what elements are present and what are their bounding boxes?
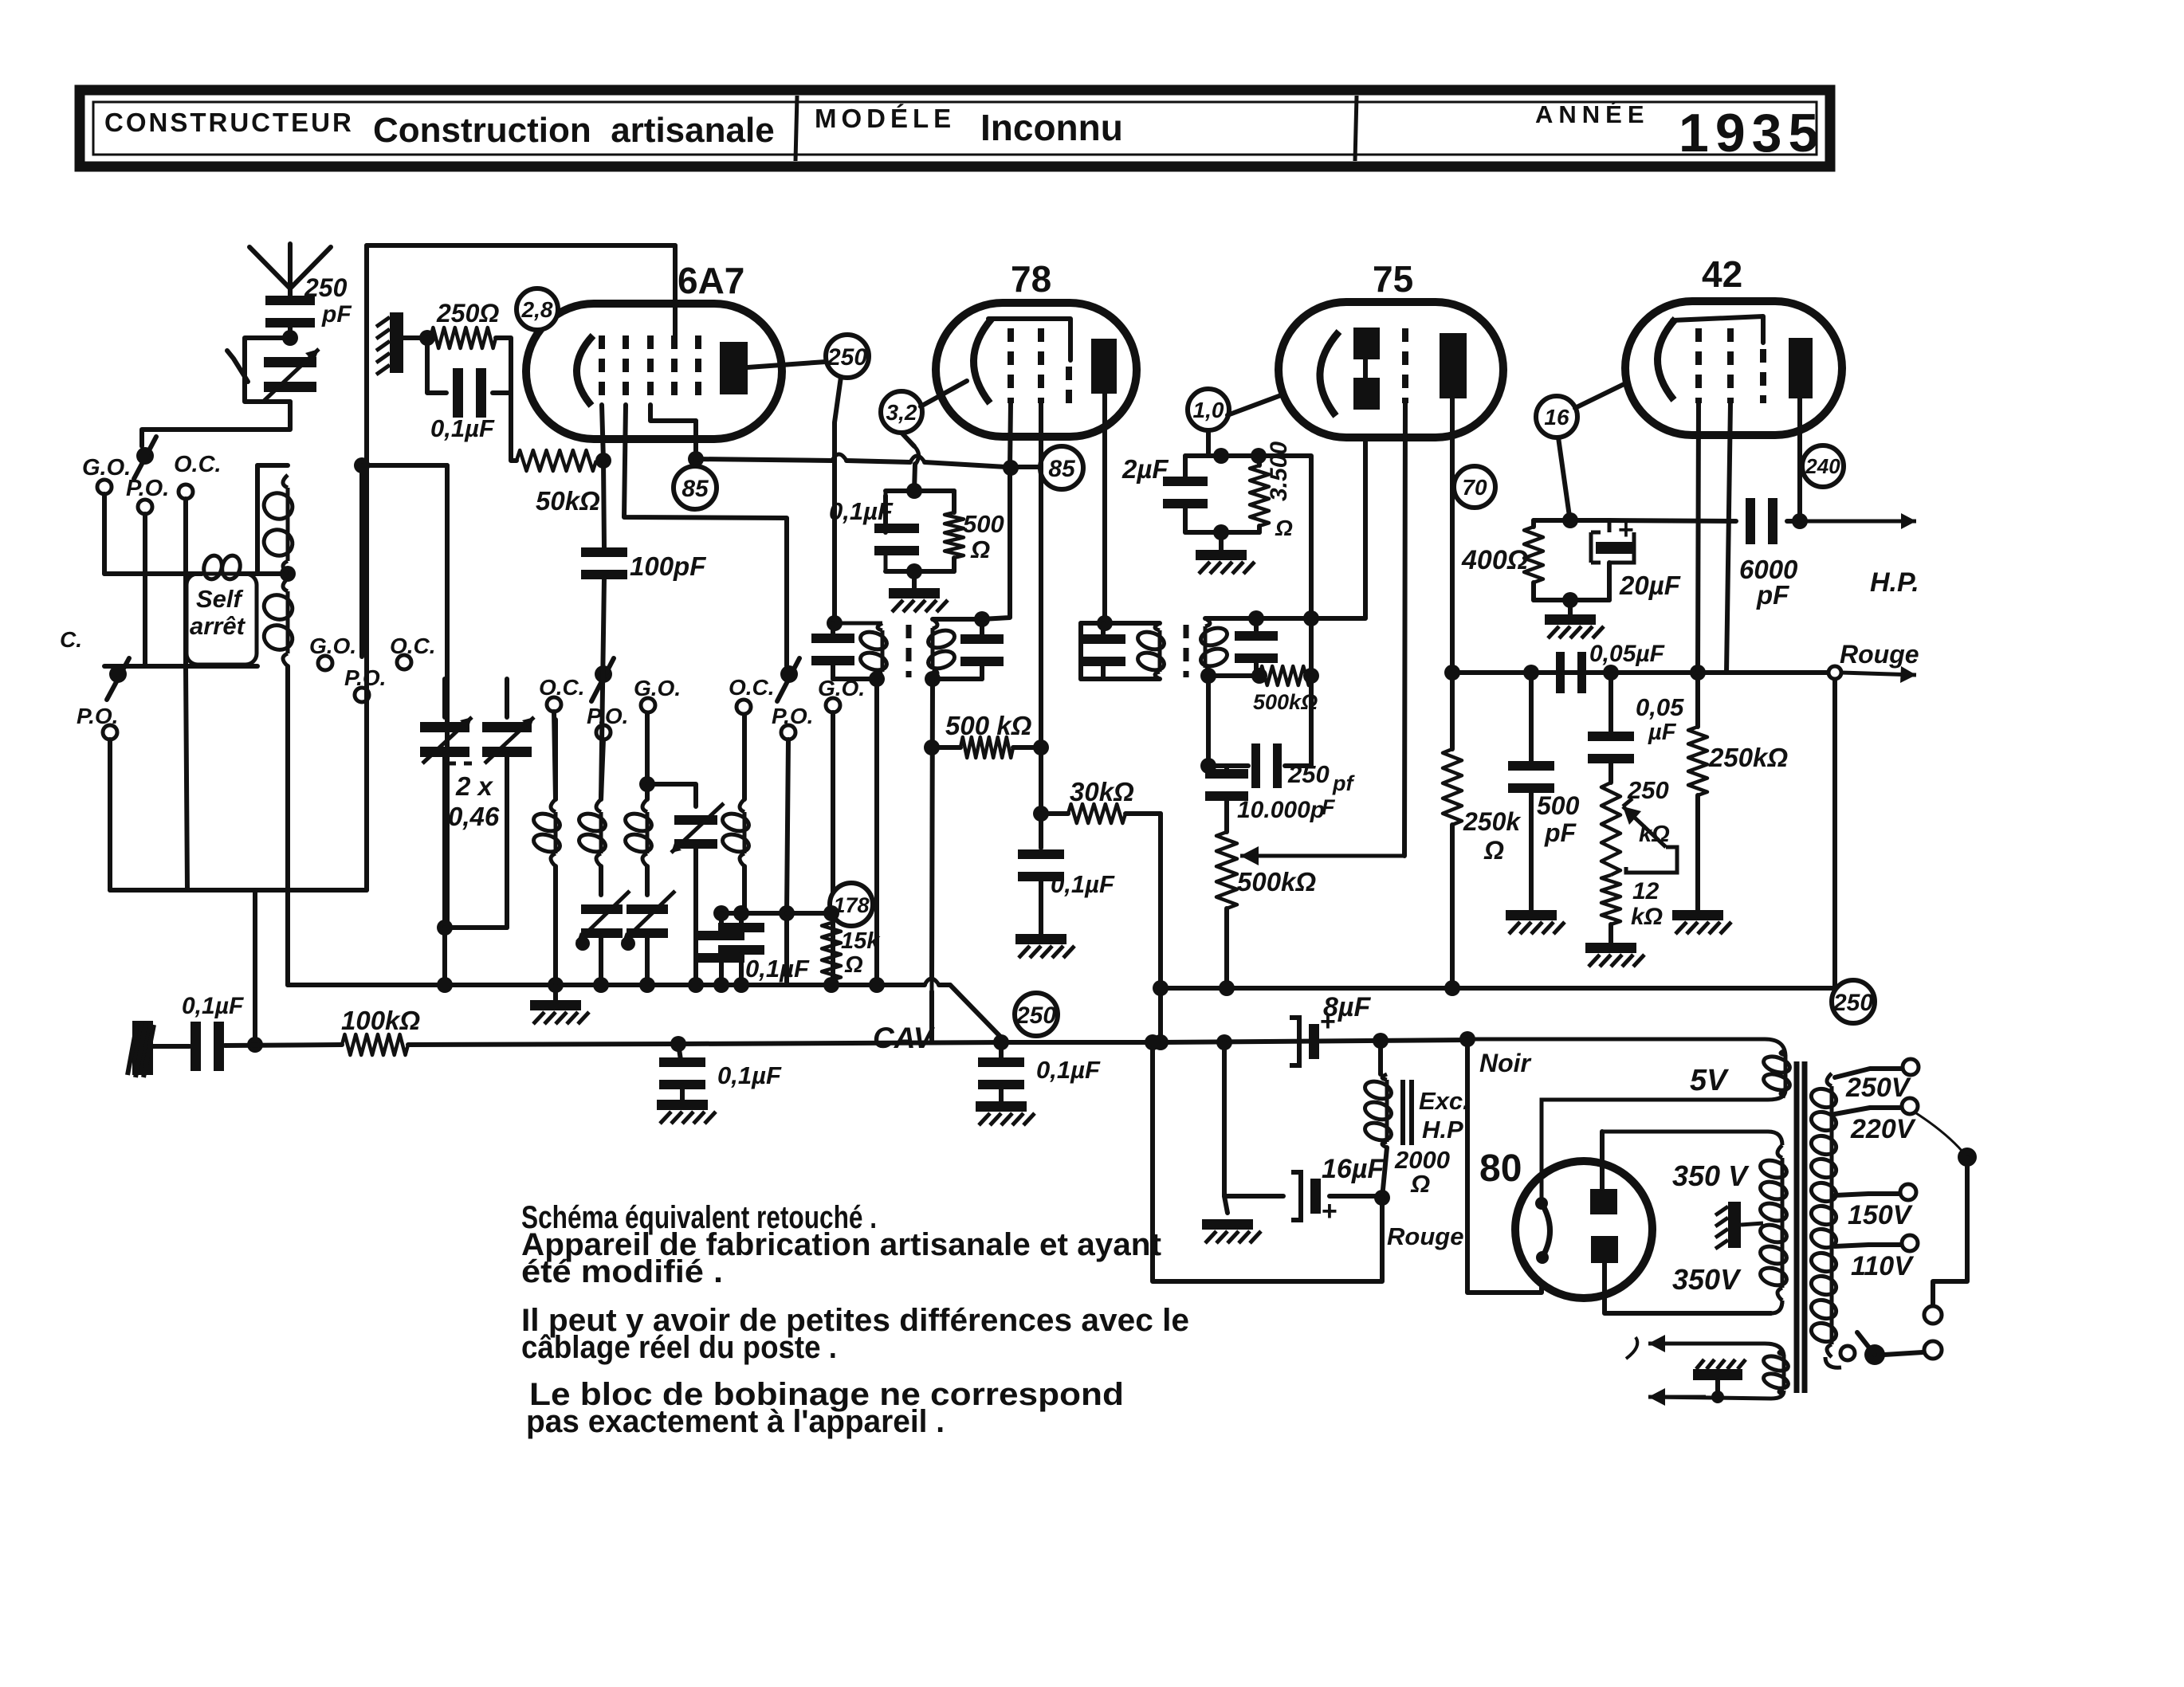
wire 78 grid lead — [1039, 403, 1043, 814]
terminal (178) — [830, 883, 873, 926]
tube 80 anode 1 — [1590, 1189, 1617, 1214]
wire bus corner to rouge line — [1832, 678, 1837, 988]
wire 100pF down to coil2 — [601, 578, 604, 799]
svg-text:500 kΩ: 500 kΩ — [945, 711, 1032, 740]
wire trimmer C to bus — [599, 936, 603, 985]
ground 12k — [1609, 924, 1613, 943]
wire P.O. S3 down — [601, 740, 603, 799]
wire mains selector — [1914, 1112, 1962, 1151]
title divider 2 — [1355, 96, 1357, 161]
box 400/20uF top — [1534, 518, 1609, 523]
node bus pot — [1219, 980, 1235, 996]
wire osc coil3 down — [645, 866, 650, 895]
capacitor 0,1uF osc — [739, 913, 744, 924]
title block frame — [80, 90, 1830, 167]
wire tall loop left — [255, 465, 260, 574]
resistor 250k to bus — [1443, 749, 1462, 825]
wire G.O. S1 down — [102, 494, 107, 574]
ground 500pF — [1529, 791, 1534, 910]
svg-text:250: 250 — [1287, 760, 1330, 788]
svg-text:1,0: 1,0 — [1193, 398, 1224, 422]
inductor IF2 secondary — [1199, 618, 1230, 676]
node bias left — [419, 330, 435, 346]
tube 75 diode plate upper — [1353, 328, 1380, 359]
tap 220V — [1835, 1108, 1900, 1114]
tube 78 grid 2 — [1038, 328, 1044, 403]
wire bias cap branch — [427, 338, 446, 393]
wire exc bottom loop — [1153, 1042, 1382, 1281]
tube 78 top link — [988, 319, 1070, 360]
terminal (70) — [1454, 466, 1495, 508]
svg-text:CAV: CAV — [873, 1022, 936, 1054]
wire P.O. S4 down — [787, 740, 788, 913]
wire diode out — [1206, 676, 1211, 766]
svg-text:0,46: 0,46 — [448, 802, 500, 831]
node bus 250k — [1444, 980, 1460, 996]
node bus 15k — [823, 977, 839, 993]
svg-text:Ω: Ω — [1483, 836, 1504, 865]
title divider 1 — [795, 96, 797, 161]
wire bias right node — [496, 338, 517, 461]
resistor 100k — [342, 1034, 408, 1055]
inductor IF1 primary — [858, 623, 890, 679]
wire osc coil3 up — [645, 712, 650, 799]
wire 75 diode jog — [1311, 437, 1365, 618]
wire osc coil1 down to bus — [553, 866, 558, 985]
inductor antenna coil lower — [261, 579, 296, 666]
svg-text:O.C.: O.C. — [729, 675, 775, 700]
node 0,05 top — [1603, 665, 1619, 681]
350V winding top — [1602, 1132, 1782, 1145]
tube 6A7 grid 3 — [647, 335, 654, 405]
wire 460 to 1117 — [364, 465, 369, 890]
inductor osc coil 2 — [577, 799, 608, 866]
svg-text:pF: pF — [1544, 818, 1577, 847]
svg-text:10.000p: 10.000p — [1237, 797, 1325, 823]
svg-text:110V: 110V — [1851, 1251, 1915, 1281]
ground 400 — [1568, 600, 1573, 614]
Exc HP core bars — [1403, 1080, 1412, 1145]
wire 1,0 drop — [1206, 430, 1211, 456]
svg-text:70: 70 — [1462, 475, 1487, 500]
tap 110V — [1835, 1245, 1900, 1246]
ground 250k grid leak — [1695, 795, 1700, 910]
IF1 primary box — [831, 622, 882, 626]
svg-text:50kΩ: 50kΩ — [536, 486, 600, 516]
wire 30k down — [1158, 814, 1163, 1042]
svg-text:5V: 5V — [1690, 1064, 1729, 1097]
wire 6A7 grid1 lead — [602, 405, 604, 548]
wire 178 node — [787, 911, 831, 916]
svg-text:Ω: Ω — [1410, 1170, 1430, 1198]
capacitor 2uF — [1183, 456, 1188, 477]
wire 78 anode lead — [1102, 394, 1107, 623]
wire 42 grid2 lead — [1726, 403, 1730, 673]
wire HT bus hop — [925, 979, 939, 985]
wire left bottom rail — [104, 664, 257, 669]
wire busC — [1452, 670, 1726, 675]
wire HT bus right — [1161, 986, 1835, 991]
variable capacitor antenna trimmer — [264, 357, 316, 392]
terminal (1,0) — [1188, 389, 1229, 430]
svg-text:0,1µF: 0,1µF — [745, 955, 810, 983]
wire switch S2 drop — [108, 740, 112, 890]
tube 75 anode — [1440, 333, 1467, 398]
squiggle — [1626, 1337, 1637, 1359]
svg-text:Rouge: Rouge — [1387, 1222, 1463, 1250]
svg-text:kΩ: kΩ — [1639, 822, 1670, 847]
inductor heater 6.3V — [1762, 1350, 1789, 1395]
tube 75 grid — [1402, 328, 1408, 403]
wire osc bottom link — [110, 888, 367, 893]
resistor 250 Ohm — [430, 328, 496, 348]
variable capacitor trimmer E — [671, 803, 724, 853]
capacitor 250pF antenna series — [265, 296, 315, 328]
svg-text:250: 250 — [304, 273, 348, 302]
svg-text:Inconnu: Inconnu — [980, 107, 1123, 148]
wire tall loop top — [257, 463, 288, 468]
node IF2 pri top — [1097, 615, 1113, 631]
box 400 bottom — [1534, 598, 1609, 602]
node 400 bottom — [1562, 592, 1578, 608]
tube 78 grid 1 — [1008, 328, 1014, 403]
wire IF2 secondary bottom — [1205, 673, 1256, 678]
wire noir drop — [1467, 1039, 1542, 1293]
terminal switch left — [1840, 1346, 1855, 1360]
svg-text:100pF: 100pF — [630, 551, 706, 581]
node 30k left — [1033, 806, 1049, 822]
ground HT center tap — [1715, 1202, 1763, 1249]
wire 16 to 42 — [1575, 375, 1644, 408]
svg-text:16: 16 — [1544, 405, 1569, 430]
node 50k grid — [595, 453, 611, 469]
svg-text:20µF: 20µF — [1619, 571, 1681, 600]
node 500ohm bottom — [906, 563, 922, 579]
wire osc cap to bus — [739, 953, 744, 985]
svg-text:500: 500 — [963, 510, 1004, 538]
svg-text:12: 12 — [1632, 878, 1660, 904]
wire 6A7 anode drop — [835, 377, 841, 623]
wire padder gang dashes — [448, 762, 478, 766]
box self arret — [187, 574, 257, 665]
tube 78 grid 3 — [1066, 367, 1072, 403]
ground CAV right cap — [999, 1085, 1004, 1101]
wire 6A7 screen lead — [693, 421, 698, 451]
wire 80 anode1 lead — [1600, 1132, 1605, 1189]
tube 6A7 envelope — [526, 304, 782, 439]
terminal (250) — [1832, 980, 1875, 1023]
tube 6A7 grid 5 — [695, 335, 701, 405]
svg-text:pf: pf — [1332, 771, 1355, 795]
switch contact S4 — [780, 665, 798, 683]
wire 2uF box top — [1185, 453, 1259, 458]
switch lever S2 — [107, 658, 129, 700]
svg-text:0,1µF: 0,1µF — [829, 497, 894, 525]
potentiometer 500k volume — [1216, 832, 1237, 908]
title block inner line — [93, 102, 1817, 155]
wire bias bar to node — [403, 335, 427, 340]
svg-text:16µF: 16µF — [1322, 1154, 1385, 1184]
wire antenna cap to junction — [288, 325, 293, 338]
svg-text:0,1µF: 0,1µF — [717, 1061, 782, 1089]
svg-text:CONSTRUCTEUR: CONSTRUCTEUR — [104, 108, 354, 137]
svg-text:0,05µF: 0,05µF — [1589, 641, 1665, 667]
node selector — [1958, 1148, 1977, 1167]
switch mains — [1864, 1344, 1885, 1365]
node antenna junction — [282, 330, 298, 346]
capacitor 16uF electrolytic — [1291, 1172, 1338, 1226]
node bus coil2 — [593, 977, 609, 993]
wire G.O. S5 down — [831, 712, 835, 985]
terminal (2,8) — [517, 288, 558, 330]
wire bus link diagonal — [950, 985, 1006, 1042]
svg-text:500kΩ: 500kΩ — [1237, 867, 1316, 896]
box kOhm — [1626, 847, 1677, 873]
tube 6A7 anode — [720, 342, 748, 394]
wire IF2 secondary top — [1205, 616, 1311, 621]
tube 42 top link — [1672, 316, 1763, 343]
wire padder to bus — [442, 928, 447, 985]
wire osc coil4 up — [742, 713, 747, 799]
wire 10000pF to pot — [1224, 799, 1229, 832]
wire osc coil4 down — [742, 866, 747, 913]
node bus trimmer E — [688, 977, 704, 993]
wire 16uF branch — [1222, 1042, 1227, 1196]
wire earth cap to resistor — [225, 1045, 342, 1046]
capacitor 0,1uF CAV right — [993, 1034, 1009, 1050]
arrow heater bottom — [1648, 1388, 1706, 1406]
terminal (240) — [1802, 445, 1844, 487]
capacitor IF1 primary — [831, 623, 835, 634]
inductor IF1 secondary — [926, 619, 957, 679]
svg-text:O.C.: O.C. — [390, 634, 436, 658]
node 16uF right — [1374, 1190, 1390, 1206]
svg-text:µF: µF — [1648, 720, 1677, 745]
arrow Rouge — [1841, 666, 1916, 683]
pot 250k wiper — [1623, 806, 1666, 847]
wire screen rail — [696, 459, 832, 461]
node coil4 tap — [733, 905, 749, 921]
wire padder tops — [442, 679, 447, 717]
wire 16uF line — [1224, 1194, 1283, 1199]
capacitor 0,1uF osc2 — [719, 913, 724, 931]
wire trimmer frame — [245, 338, 290, 402]
resistor 12k — [1601, 875, 1620, 924]
ground 2uF — [1219, 532, 1224, 550]
box 500ohm network — [883, 496, 888, 515]
tube 42 anode — [1789, 338, 1813, 398]
tube 6A7 grid 4 — [671, 335, 678, 405]
node 6A7 screen — [688, 451, 704, 467]
node padder bottom — [437, 920, 453, 936]
switch arm antenna — [227, 351, 248, 382]
wire IF1 sec top to 78 — [982, 472, 1010, 619]
svg-text:0,1µF: 0,1µF — [1036, 1056, 1101, 1084]
svg-text:kΩ: kΩ — [1631, 904, 1663, 930]
wire 75 grid lead — [1404, 403, 1405, 856]
svg-text:150V: 150V — [1848, 1200, 1914, 1230]
wire 500ohm bottom — [886, 569, 954, 574]
ground plate 6A7 bias — [376, 312, 403, 375]
svg-text:220V: 220V — [1850, 1114, 1917, 1144]
wire trimmer D to bus — [645, 936, 650, 985]
node 15k — [713, 905, 729, 921]
wire osc frame drop — [445, 465, 450, 928]
svg-text:350V: 350V — [1672, 1263, 1742, 1296]
wire 16uF right — [1330, 1194, 1382, 1199]
terminal mains A — [1924, 1306, 1942, 1324]
capacitor 0,1uF 78 grid — [1039, 814, 1043, 848]
svg-text:ANNÉE: ANNÉE — [1535, 100, 1650, 128]
node 500pF — [1523, 665, 1539, 681]
tube 78 cathode — [973, 319, 992, 403]
terminal (250) — [826, 335, 869, 378]
wire cap bottom to switch row — [142, 402, 290, 446]
earth terminal — [128, 1021, 154, 1077]
svg-text:42: 42 — [1702, 253, 1742, 295]
svg-text:30kΩ: 30kΩ — [1070, 777, 1134, 806]
node IF1 pri top — [827, 615, 843, 631]
wire aerial coil rail — [104, 571, 202, 576]
svg-text:3,2: 3,2 — [886, 400, 917, 425]
svg-text:1935: 1935 — [1679, 103, 1825, 163]
node 3500 top — [1251, 448, 1267, 464]
capacitor 0,1uF earth series — [191, 1022, 224, 1071]
wire IF1 primary bottom — [833, 677, 882, 681]
wire coil4 tap right — [741, 913, 787, 985]
wire osc coil3 tap to trimmer E — [639, 776, 655, 792]
wire 42 grid1 lead — [1698, 403, 1699, 673]
svg-text:100kΩ: 100kΩ — [341, 1006, 420, 1035]
wire IF1 secondary bottom — [933, 677, 982, 681]
node AVC right — [1033, 740, 1049, 755]
capacitor 6000pF — [1746, 498, 1777, 544]
wire 3,2 to 78 — [921, 381, 967, 406]
tube 42 envelope — [1625, 301, 1842, 435]
switch contact S3 — [595, 665, 612, 683]
svg-text:+: + — [1322, 1196, 1338, 1226]
inductor osc coil 4 — [721, 799, 752, 866]
inductor Exc HP field coil — [1378, 1041, 1383, 1074]
terminal mains B — [1924, 1341, 1942, 1359]
node 400 top — [1562, 512, 1578, 528]
arrow heater top — [1648, 1335, 1706, 1352]
svg-text:2µF: 2µF — [1121, 454, 1169, 484]
resistor 3500 Ohm — [1250, 465, 1269, 526]
node bus padder — [437, 977, 453, 993]
tube 80 anode 2 — [1591, 1236, 1618, 1263]
ground 500ohm — [912, 571, 917, 588]
wire O.C. S1 down — [186, 499, 187, 890]
wire trimmer E down to bus — [693, 846, 698, 985]
inductor osc coil 1 — [532, 799, 563, 866]
svg-text:Ω: Ω — [1275, 516, 1293, 540]
terminal (85) — [1040, 446, 1083, 489]
wire 6A7 grid4 top lead — [673, 245, 678, 335]
svg-text:6A7: 6A7 — [678, 260, 744, 301]
wire selector drop — [1933, 1157, 1967, 1305]
svg-text:Noir: Noir — [1479, 1049, 1532, 1077]
wire drop to earth line — [253, 890, 257, 1045]
svg-text:été modifié .: été modifié . — [521, 1254, 723, 1289]
svg-text:pF: pF — [1756, 580, 1789, 610]
capacitor 0,1uF 78cathode — [883, 515, 888, 524]
svg-text:Self: Self — [196, 585, 244, 613]
node 250k grid — [1690, 665, 1706, 681]
resistor 500 Ohm — [945, 512, 964, 558]
svg-text:250: 250 — [827, 344, 867, 371]
node bus coil4 — [733, 977, 749, 993]
svg-text:Ω: Ω — [970, 536, 990, 563]
wire 2uF rail right — [1259, 456, 1311, 673]
node bus coil1 — [548, 977, 564, 993]
inductor IF2 primary — [1136, 623, 1167, 679]
node loop left — [1145, 1034, 1161, 1050]
svg-text:75: 75 — [1373, 258, 1413, 300]
svg-text:Construction artisanale: Construction artisanale — [373, 111, 775, 150]
inductor primary mains — [1809, 1073, 1838, 1357]
wire primary bottom — [1825, 1357, 1841, 1367]
node noir — [1459, 1031, 1475, 1047]
svg-text:pas exactement à l'appareil .: pas exactement à l'appareil . — [526, 1404, 945, 1439]
capacitor 100pF — [581, 547, 627, 579]
switch lever S4 — [777, 658, 799, 701]
svg-text:8µF: 8µF — [1323, 992, 1371, 1022]
wire osc coil1 up — [553, 720, 558, 799]
wire top rail left drop — [364, 245, 369, 465]
svg-text:2,8: 2,8 — [521, 297, 553, 322]
node 250pf left — [1200, 758, 1216, 774]
svg-text:250V: 250V — [1845, 1073, 1912, 1103]
wire pot to bus — [1224, 908, 1229, 988]
svg-text:0,1µF: 0,1µF — [1051, 870, 1115, 898]
svg-text:250Ω: 250Ω — [436, 299, 499, 328]
wire IF1 secondary top — [933, 617, 982, 622]
tube 78 envelope — [936, 303, 1137, 437]
tube 75 envelope — [1279, 302, 1503, 437]
node self arret — [280, 566, 296, 582]
tube 6A7 cathode — [576, 335, 593, 406]
terminal rouge open — [1829, 666, 1841, 679]
node IF1 sec top — [974, 611, 990, 627]
tube 75 diode plate lower — [1353, 378, 1380, 410]
terminal (16) — [1536, 396, 1577, 437]
svg-text:250: 250 — [1627, 776, 1669, 804]
tube 6A7 grid 2 — [623, 335, 629, 405]
svg-text:Ω: Ω — [844, 952, 863, 978]
wire O.C. S3 down — [554, 712, 556, 799]
svg-text:400Ω: 400Ω — [1461, 545, 1528, 575]
wire 6A7 anode lead — [748, 362, 826, 367]
pot wiper arrow — [1240, 846, 1404, 865]
wire 2uF bottom — [1185, 530, 1259, 535]
node CAV 30k — [1153, 1034, 1169, 1050]
node 16uF branch — [1216, 1034, 1232, 1050]
node IF1 pri bottom — [869, 671, 885, 687]
svg-text:85: 85 — [1048, 456, 1076, 482]
node IF2 sec top — [1248, 610, 1264, 626]
wire P.O. S1 down — [143, 514, 147, 666]
arrow HP — [1800, 513, 1916, 529]
inductor 5V — [1762, 1050, 1792, 1097]
capacitor 0,1uF CAV left — [678, 1044, 681, 1060]
antenna — [249, 247, 290, 288]
transformer core — [1797, 1061, 1805, 1393]
svg-text:pF: pF — [321, 301, 352, 328]
svg-text:85: 85 — [682, 476, 709, 502]
terminal (85) — [674, 466, 717, 509]
wire heater gnd stem — [1715, 1380, 1720, 1397]
